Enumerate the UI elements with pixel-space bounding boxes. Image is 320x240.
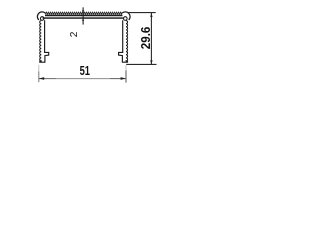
profile top outer surface (solid) — [45, 14, 122, 16]
profile top knurl teeth — [45, 12, 122, 14]
dim 29.6: top extension line — [128, 12, 156, 14]
dim 51: dimension line — [39, 78, 56, 80]
dim 29.6: top arrow — [150, 13, 152, 17]
profile top-left corner outer radius — [37, 12, 45, 20]
profile top-right corner outer radius — [122, 12, 130, 20]
dim 29.6: bottom arrow — [150, 60, 152, 64]
dim 29.6: bottom extension line — [126, 63, 156, 65]
top band core seam — [45, 16, 122, 18]
right wall inner edge + foot + bottom — [119, 20, 128, 62]
dim 51: left arrow — [39, 77, 44, 80]
svg-text:29.6: 29.6 — [139, 26, 154, 49]
left wall knurled outer edge — [40, 21, 42, 62]
left wall inner edge + foot + bottom — [40, 20, 49, 62]
right wall knurled outer edge — [126, 21, 128, 62]
dim 51: left extension line — [38, 65, 40, 72]
dim 51: right arrow — [121, 77, 126, 80]
svg-text:51: 51 — [80, 65, 90, 79]
profile top-left corner inner curl — [40, 17, 44, 21]
dim 2: lower arrow — [82, 18, 84, 21]
dim 2: vertical line — [82, 7, 84, 24]
profile top-right corner inner curl — [124, 17, 128, 21]
profile top inner surface line — [43, 17, 124, 19]
dim 51: right extension line — [125, 65, 127, 71]
dim 2: upper arrow — [82, 10, 84, 13]
svg-text:2: 2 — [69, 31, 80, 37]
dim 29.6: vertical dimension line — [150, 13, 152, 64]
